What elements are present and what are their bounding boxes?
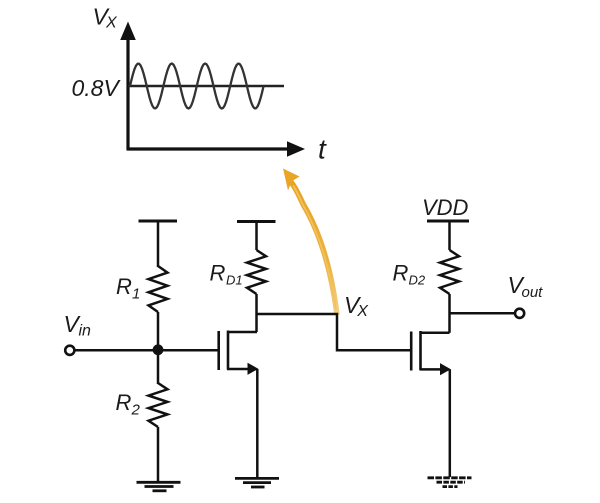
terminal Vin [65, 346, 74, 355]
transistor M1 [219, 331, 259, 375]
svg-text:D2: D2 [409, 273, 426, 288]
power rail (top of RD1) [237, 220, 276, 223]
svg-text:R: R [116, 274, 132, 299]
svg-text:t: t [318, 134, 327, 165]
label VX (graph y-axis) [93, 4, 119, 32]
axis horizontal (t axis of inset graph) [127, 141, 306, 157]
svg-text:in: in [79, 323, 92, 340]
wire M1 source to ground [256, 369, 259, 479]
svg-text:D1: D1 [226, 273, 243, 288]
power rail (top of R1) [139, 220, 178, 223]
label VX (circuit node) [344, 292, 369, 320]
label R1 [116, 274, 140, 303]
wire M2 source to ground [449, 369, 452, 477]
node junction dot (Vin/R1/R2) [153, 344, 164, 355]
svg-text:1: 1 [132, 286, 140, 303]
wire Vin to M1 gate [75, 349, 219, 352]
ground (M1 source) [235, 478, 279, 487]
terminal Vout [515, 309, 524, 318]
annotation arrow (node VX to graph) [283, 169, 337, 316]
wire M2 drain to RD2 [448, 294, 451, 333]
svg-text:VDD: VDD [422, 195, 469, 220]
label Vin [64, 311, 92, 340]
wire RD1 to power rail [255, 221, 258, 250]
ground (M2 source, dashed style) [428, 478, 472, 487]
wire R1 to node [157, 312, 160, 384]
label Vout [508, 272, 544, 301]
wire rail to R1 [157, 221, 160, 267]
resistor RD2 [440, 250, 459, 294]
svg-text:0.8V: 0.8V [72, 75, 122, 101]
svg-text:R: R [116, 390, 132, 415]
transistor M2 [411, 331, 451, 375]
svg-text:X: X [105, 15, 118, 32]
resistor R1 [149, 266, 168, 312]
power rail VDD [427, 220, 469, 223]
svg-text:R: R [210, 261, 226, 286]
svg-text:R: R [393, 261, 409, 286]
resistor RD1 [247, 250, 266, 294]
label RD2 [393, 261, 426, 288]
wire RD2 to VDD rail [448, 221, 451, 250]
wire Vout [450, 312, 516, 315]
wire M1 drain to RD1 [255, 294, 258, 332]
label R2 [116, 390, 141, 419]
svg-text:X: X [356, 303, 369, 320]
svg-text:2: 2 [131, 402, 141, 419]
sine waveform [130, 64, 264, 109]
axis vertical (VX axis of inset graph) [120, 22, 136, 150]
ground (below R2) [137, 482, 181, 491]
node VX wire (drain branch) [257, 314, 411, 350]
level line 0.8V [128, 85, 284, 88]
wire R2 to ground [157, 427, 160, 483]
label RD1 [210, 261, 243, 288]
resistor R2 [149, 383, 168, 427]
svg-text:out: out [522, 284, 544, 301]
